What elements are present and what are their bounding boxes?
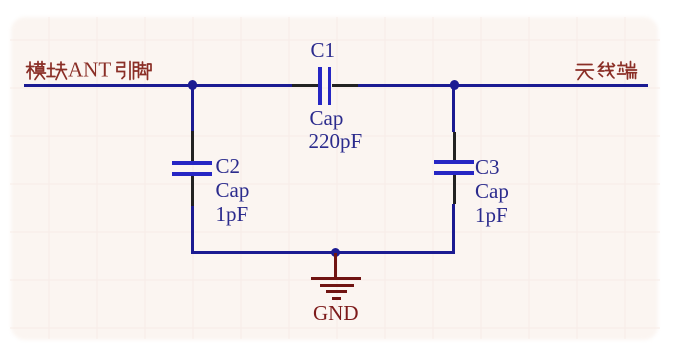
designator C1 [311,40,336,61]
wire top-left segment [24,84,292,87]
ground GND symbol [334,253,337,277]
capacitor C3 [453,132,456,160]
value 1pF (C2) [216,204,249,225]
wire C3 branch upper [452,85,455,132]
wire top-right segment [358,84,648,87]
wire C3 branch lower [452,204,455,253]
value Cap (C3) [475,181,509,202]
value Cap (C1) [310,108,344,129]
net label 模块ANT引脚 [24,60,154,83]
value Cap (C2) [216,180,250,201]
net label 天线端 [574,60,638,83]
svg-text:ANT: ANT [68,60,111,82]
wire C2 branch lower [191,206,194,254]
junction node left [188,80,197,89]
value 1pF (C3) [475,205,508,226]
net label GND [313,303,359,324]
junction node ground [331,248,340,257]
capacitor C1 [292,84,318,87]
value 220pF [309,131,363,152]
capacitor C2 [191,131,194,162]
junction node right [450,80,459,89]
designator C3 [475,157,500,178]
wire bottom segment [191,251,456,254]
wire C2 branch upper [191,85,194,131]
designator C2 [216,156,241,177]
